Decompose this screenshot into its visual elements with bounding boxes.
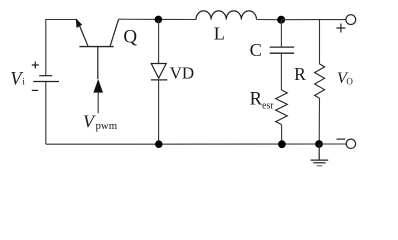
wire tee to plus terminal bbox=[320, 19, 346, 21]
output terminal minus bbox=[337, 139, 356, 148]
svg-text:VD: VD bbox=[170, 63, 195, 82]
svg-text:V: V bbox=[83, 112, 96, 132]
svg-text:Q: Q bbox=[123, 27, 137, 48]
voltage source Vi (battery) bbox=[32, 62, 59, 91]
ground bbox=[311, 144, 329, 166]
node bottom of Resr bbox=[278, 140, 286, 148]
wire load branch upper bbox=[319, 20, 321, 64]
label Vo bbox=[337, 70, 353, 87]
svg-text:L: L bbox=[214, 24, 225, 44]
wire capacitor to Resr bbox=[280, 53, 282, 90]
wire bottom rail bbox=[46, 143, 347, 145]
transistor Q bbox=[78, 19, 118, 79]
wire Resr to bottom node bbox=[281, 125, 283, 145]
svg-text:pwm: pwm bbox=[96, 120, 118, 132]
wire top-left from source to emitter bbox=[46, 20, 77, 76]
wire capacitor branch upper bbox=[280, 20, 282, 47]
wire cap node to load tee bbox=[281, 19, 319, 21]
output terminal plus bbox=[336, 15, 355, 33]
label Vpwm bbox=[83, 112, 118, 133]
svg-text:C: C bbox=[250, 40, 262, 60]
wire inductor to cap node bbox=[257, 19, 282, 21]
resistor Resr bbox=[276, 90, 288, 125]
node top of diode bbox=[155, 16, 163, 24]
wire load branch lower bbox=[318, 98, 320, 144]
svg-text:R: R bbox=[294, 64, 306, 84]
diode VD bbox=[151, 64, 167, 80]
svg-text:O: O bbox=[346, 77, 353, 87]
node top of capacitor bbox=[277, 16, 285, 24]
svg-text:esr: esr bbox=[262, 101, 274, 112]
svg-text:R: R bbox=[250, 89, 263, 109]
wire diode branch lower bbox=[158, 80, 160, 144]
resistor R bbox=[315, 64, 325, 98]
label Vi bbox=[10, 69, 25, 89]
node ground junction bbox=[315, 140, 323, 148]
wire diode node to inductor bbox=[158, 18, 196, 20]
transistor Q emitter arrowhead bbox=[76, 18, 82, 28]
wire collector to diode node bbox=[119, 18, 159, 20]
capacitor C bbox=[270, 47, 294, 53]
wire diode branch upper bbox=[158, 19, 160, 63]
pwm drive arrow bbox=[93, 79, 103, 113]
node bottom of diode bbox=[155, 140, 163, 148]
wire left vertical below source to bottom rail bbox=[45, 82, 47, 145]
label Resr bbox=[250, 89, 275, 111]
svg-text:i: i bbox=[22, 78, 25, 88]
inductor L bbox=[196, 11, 256, 20]
